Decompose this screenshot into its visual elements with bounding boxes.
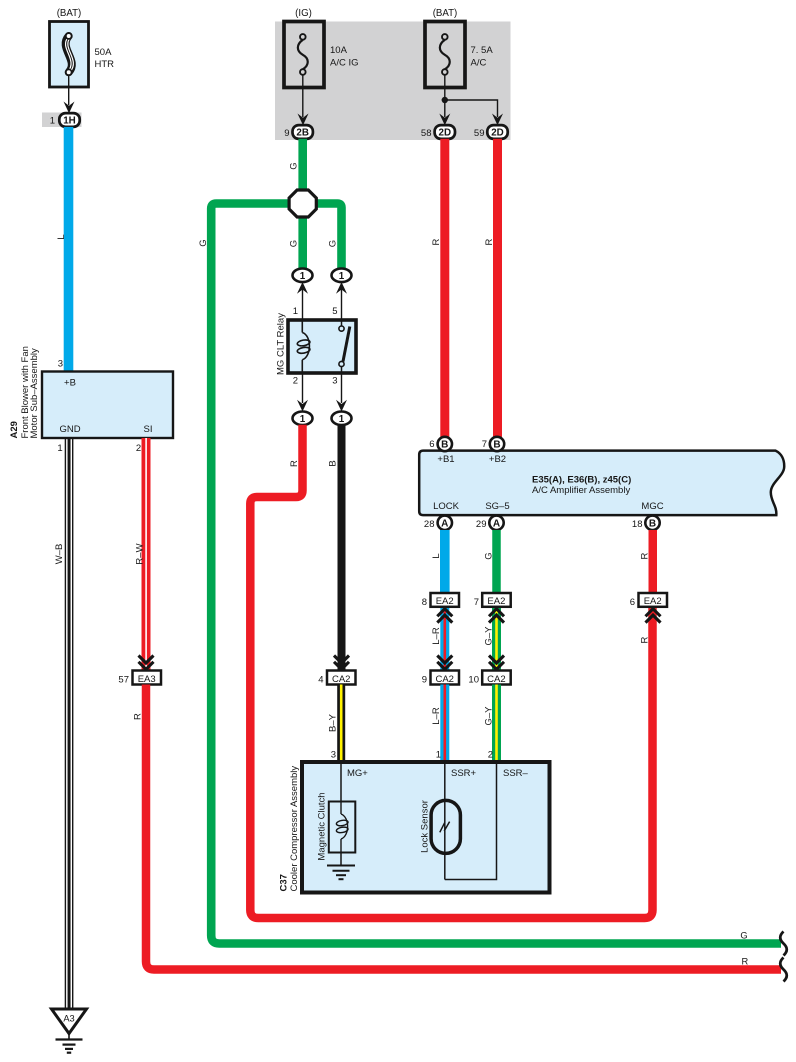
svg-text:EA3: EA3 <box>138 674 156 685</box>
svg-text:A: A <box>441 518 448 529</box>
svg-text:GND: GND <box>59 424 80 435</box>
svg-text:CA2: CA2 <box>487 674 505 685</box>
svg-text:Magnetic Clutch: Magnetic Clutch <box>316 792 327 860</box>
svg-text:2D: 2D <box>439 127 452 138</box>
lead wire from fuse A/C with branch <box>445 75 498 117</box>
svg-text:G: G <box>327 240 338 247</box>
arrow into connector 1H <box>64 102 75 114</box>
arrow down into CA2 (9) <box>437 656 452 670</box>
internal wire SSR+ (through lock sensor) <box>444 762 446 880</box>
svg-text:B: B <box>441 440 448 451</box>
lock sensor contact slashes <box>440 822 450 833</box>
connector B (pin 7) <box>490 437 504 451</box>
svg-text:E35(A), E36(B), z45(C): E35(A), E36(B), z45(C) <box>532 474 631 485</box>
wire B from relay pin 3 <box>338 425 346 671</box>
wire R to amplifier +B2 <box>493 139 502 438</box>
svg-text:7. 5A: 7. 5A <box>471 45 494 56</box>
wire G-Y between EA2 and CA2 <box>492 607 501 672</box>
A/C amplifier assembly box <box>419 451 784 515</box>
svg-text:C37: C37 <box>278 874 289 891</box>
connector B (pin 18) <box>645 516 659 530</box>
svg-text:7: 7 <box>474 597 479 608</box>
ground symbol <box>56 1034 83 1053</box>
svg-text:G: G <box>740 930 747 940</box>
svg-text:SG–5: SG–5 <box>485 501 509 512</box>
fuse 7.5A A/C <box>425 22 465 88</box>
svg-text:Lock Sensor: Lock Sensor <box>419 800 430 853</box>
internal wire MG+ <box>340 762 342 802</box>
svg-text:3: 3 <box>332 376 337 387</box>
arrow up into EA2 (8) <box>437 609 452 623</box>
svg-text:L–R: L–R <box>431 627 442 645</box>
lead wire to relay pin 5 <box>341 289 343 320</box>
svg-text:+B2: +B2 <box>489 454 506 465</box>
wire L-R from CA2 to compressor SSR+ <box>440 685 449 763</box>
compressor C37 box <box>302 762 550 893</box>
junction connector EA2 (8) <box>431 593 460 607</box>
junction connector EA3 <box>133 671 162 685</box>
svg-text:CA2: CA2 <box>332 674 350 685</box>
svg-text:5: 5 <box>332 306 337 317</box>
svg-text:(IG): (IG) <box>295 8 312 19</box>
svg-text:1: 1 <box>300 271 306 282</box>
svg-text:2: 2 <box>293 376 298 387</box>
wire G right branch to relay pin 5 connector <box>316 204 342 270</box>
svg-text:L–R: L–R <box>431 707 442 725</box>
arrow into EA3 <box>139 656 154 670</box>
svg-text:1H: 1H <box>63 115 76 126</box>
svg-text:1: 1 <box>293 306 298 317</box>
svg-text:SSR–: SSR– <box>503 768 529 779</box>
connector 2D (58) <box>435 125 455 139</box>
svg-text:50A: 50A <box>95 47 113 58</box>
arrow up into EA2 (7) <box>489 609 504 623</box>
svg-text:29: 29 <box>476 519 487 530</box>
svg-text:R: R <box>289 460 300 467</box>
svg-text:6: 6 <box>630 597 635 608</box>
svg-text:10: 10 <box>468 675 479 686</box>
connector 1 (relay pin 2 side) <box>293 412 313 426</box>
svg-text:MGC: MGC <box>641 501 663 512</box>
svg-text:4: 4 <box>318 675 323 686</box>
wire G from 2B to splice <box>298 139 307 191</box>
connector 2B <box>293 125 313 139</box>
svg-text:Motor Sub–Assembly: Motor Sub–Assembly <box>29 348 40 439</box>
svg-text:G–Y: G–Y <box>483 626 494 646</box>
svg-text:B: B <box>327 460 338 466</box>
svg-text:R: R <box>132 713 143 720</box>
relay MG CLT Relay <box>288 320 356 373</box>
wire R to amplifier +B1 <box>440 139 449 438</box>
blower A29 box <box>42 372 173 439</box>
svg-text:R: R <box>639 552 650 559</box>
svg-text:Cooler Compressor Assembly: Cooler Compressor Assembly <box>289 766 300 892</box>
arrow down into connector 1 (pin 2 side) <box>297 400 308 412</box>
svg-text:1: 1 <box>339 271 345 282</box>
svg-text:1: 1 <box>300 414 306 425</box>
svg-text:G: G <box>198 239 209 246</box>
lead wire from fuse IG <box>302 75 304 117</box>
junction connector CA2 (10) <box>482 671 511 685</box>
arrow into CA2 (4) <box>334 656 349 670</box>
svg-text:B–Y: B–Y <box>328 713 339 732</box>
svg-text:B: B <box>649 518 656 529</box>
svg-text:EA2: EA2 <box>487 596 505 607</box>
svg-text:3: 3 <box>58 359 63 370</box>
svg-text:G: G <box>483 552 494 559</box>
svg-text:10A: 10A <box>330 45 348 56</box>
junction connector EA2 (7) <box>482 593 511 607</box>
gray background region (junction block area) <box>275 22 511 141</box>
fuse 10A A/C IG <box>284 22 324 88</box>
connector A (pin 29) <box>489 516 503 530</box>
svg-text:18: 18 <box>632 519 643 530</box>
junction connector CA2 (4) <box>327 671 356 685</box>
connector A (pin 28) <box>438 516 452 530</box>
svg-text:L: L <box>431 553 442 558</box>
svg-text:2: 2 <box>488 750 493 761</box>
svg-text:EA2: EA2 <box>436 596 454 607</box>
svg-text:1: 1 <box>50 116 55 127</box>
svg-text:1: 1 <box>57 443 62 454</box>
wire R-W from SI <box>142 438 151 671</box>
wire L (blue) to blower <box>64 127 74 372</box>
continuation mark (G wire) <box>780 932 787 956</box>
splice junction (octagon) <box>289 190 316 217</box>
relay coil <box>297 321 311 372</box>
connector 2D (59) <box>487 125 507 139</box>
lead wire to relay pin 1 <box>302 289 304 320</box>
relay switch contacts <box>339 321 350 372</box>
svg-text:R: R <box>484 238 495 245</box>
arrow up into connector 1 (left) <box>297 282 308 294</box>
svg-text:1: 1 <box>339 414 345 425</box>
arrow into connector 2D (59) <box>492 114 503 126</box>
svg-text:(BAT): (BAT) <box>433 8 458 19</box>
svg-text:A/C: A/C <box>471 58 487 69</box>
svg-text:L: L <box>56 234 67 239</box>
wire R from relay pin 2 looping to amplifier MGC <box>250 425 652 918</box>
svg-text:2D: 2D <box>491 127 504 138</box>
connector 1H <box>59 113 79 127</box>
svg-text:EA2: EA2 <box>644 596 662 607</box>
lead wire from relay pin 3 <box>341 373 343 403</box>
svg-text:A/C IG: A/C IG <box>330 58 359 69</box>
lead wire from fuse 50A <box>68 75 70 105</box>
svg-text:HTR: HTR <box>95 59 115 70</box>
lead wire from relay pin 2 <box>302 373 304 403</box>
svg-text:+B: +B <box>64 377 76 388</box>
svg-text:G–Y: G–Y <box>483 706 494 726</box>
connector 1 (relay pin 3 side) <box>332 412 352 426</box>
ground point A3 <box>52 1009 87 1034</box>
svg-text:1: 1 <box>436 750 441 761</box>
svg-text:57: 57 <box>118 675 129 686</box>
svg-text:7: 7 <box>482 439 487 450</box>
internal wire lock sensor to SSR- <box>445 762 497 880</box>
svg-text:A3: A3 <box>63 1014 74 1024</box>
junction dot <box>442 97 448 103</box>
arrow into connector 2D (58) <box>439 114 450 126</box>
lock sensor <box>431 800 460 853</box>
wire G-Y from CA2 to compressor SSR- <box>492 685 501 763</box>
arrow up into EA2 (6) <box>646 609 661 623</box>
wire R from MGC <box>649 530 658 593</box>
svg-text:59: 59 <box>474 128 485 139</box>
arrow up into connector 1 (right) <box>336 282 347 294</box>
wire R from EA3 to right edge (bottom) <box>146 685 781 970</box>
svg-text:+B1: +B1 <box>437 454 454 465</box>
svg-text:SI: SI <box>144 424 153 435</box>
wire G left branch to right edge (bottom) <box>211 204 781 944</box>
ground symbol (magnetic clutch) <box>327 853 355 880</box>
svg-text:28: 28 <box>424 519 435 530</box>
svg-text:2: 2 <box>136 443 141 454</box>
svg-text:G: G <box>288 240 299 247</box>
svg-text:58: 58 <box>421 128 432 139</box>
svg-text:9: 9 <box>422 675 427 686</box>
svg-text:R: R <box>431 238 442 245</box>
svg-text:9: 9 <box>284 128 289 139</box>
wire L-R between EA2 and CA2 <box>440 607 449 672</box>
svg-text:R–W: R–W <box>134 543 145 564</box>
svg-text:CA2: CA2 <box>435 674 453 685</box>
svg-text:A: A <box>493 518 500 529</box>
svg-text:G: G <box>288 162 299 169</box>
connector 1 (relay pin 1 side) <box>293 269 313 283</box>
svg-text:3: 3 <box>331 750 336 761</box>
connector 1 (relay pin 5 side) <box>332 269 352 283</box>
connector B (pin 6) <box>438 437 452 451</box>
svg-text:8: 8 <box>422 597 427 608</box>
svg-text:LOCK: LOCK <box>433 501 460 512</box>
svg-text:6: 6 <box>429 439 434 450</box>
svg-text:A/C Amplifier Assembly: A/C Amplifier Assembly <box>532 485 630 496</box>
svg-text:W–B: W–B <box>54 544 65 565</box>
continuation mark (R wire) <box>780 958 787 982</box>
arrow into connector 2B <box>298 114 309 126</box>
svg-text:B: B <box>493 440 500 451</box>
svg-text:SSR+: SSR+ <box>451 768 477 779</box>
wire B-Y from CA2 to compressor MG+ <box>337 685 345 763</box>
svg-text:2B: 2B <box>296 127 309 138</box>
wire W-B (ground wire) <box>65 438 74 1009</box>
svg-text:MG CLT Relay: MG CLT Relay <box>275 313 286 375</box>
fusible link 50A HTR <box>50 22 89 88</box>
gray strip behind connector 1H <box>42 113 82 128</box>
svg-text:MG+: MG+ <box>347 768 368 779</box>
magnetic clutch coil <box>329 802 356 853</box>
wire G from SG-5 <box>492 530 501 593</box>
svg-text:R: R <box>741 956 748 966</box>
junction connector EA2 (6) <box>639 593 668 607</box>
svg-text:(BAT): (BAT) <box>57 8 82 19</box>
svg-text:A29: A29 <box>9 421 20 438</box>
arrow down into connector 1 (pin 3 side) <box>336 400 347 412</box>
wire G down from splice to relay pin 1 connector <box>298 216 307 269</box>
junction connector CA2 (9) <box>431 671 460 685</box>
svg-text:R: R <box>639 636 650 643</box>
wire L from LOCK <box>440 530 450 593</box>
arrow down into CA2 (10) <box>489 656 504 670</box>
